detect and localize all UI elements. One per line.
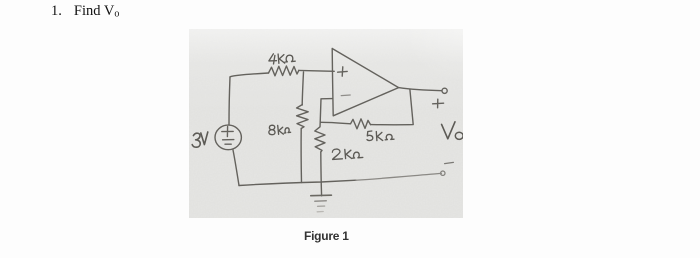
wire: feedback right segment and riser <box>371 89 414 124</box>
wire: 8k bottom to bottom rail <box>300 129 302 183</box>
label 5KOhm <box>367 131 373 141</box>
wire: 2k bottom through rail to ground <box>320 152 323 196</box>
op-amp + input marker <box>338 67 348 76</box>
node: junction drop to 8k <box>302 72 303 105</box>
label 2KOhm <box>332 149 342 159</box>
wire: feedback left segment <box>320 122 350 124</box>
label 3V <box>192 133 200 147</box>
wire: source bottom to bottom rail <box>233 150 239 186</box>
label 4KOhm <box>269 54 277 64</box>
wire: output from apex to terminal <box>399 88 442 91</box>
resistor 5K zigzag <box>351 119 371 129</box>
problem text "1. Find Vo" <box>51 3 119 20</box>
output terminal circle (+) <box>442 88 447 93</box>
op-amp - input marker <box>341 94 350 97</box>
ground symbol <box>311 195 332 212</box>
wire: top horizontal to resistor R1 <box>230 73 269 77</box>
wire: bottom rail left segment <box>239 180 356 185</box>
wire: bottom rail right segment (lighter) <box>356 173 442 180</box>
wire: inverting input stub <box>320 99 332 123</box>
bottom terminal circle (-) <box>441 171 445 175</box>
op-amp U1 triangle <box>332 49 398 116</box>
resistor 2K zigzag <box>315 122 325 152</box>
scan paper background <box>189 29 463 218</box>
output + marker <box>433 99 444 108</box>
labels (hand-written) <box>192 54 463 160</box>
scanned hand-drawn circuit figure <box>189 29 463 218</box>
label 8kOhm <box>269 125 275 135</box>
resistor 8k zigzag <box>297 105 309 129</box>
voltage source V1 circle <box>215 125 241 150</box>
wire: resistor to op-amp + input <box>299 69 334 72</box>
wire: left vertical from top corner to source <box>229 77 230 125</box>
label Vo <box>442 122 455 139</box>
caption <box>304 229 349 243</box>
output - marker <box>445 162 454 163</box>
resistor 4K zigzag <box>269 66 299 76</box>
source plus/minus marks <box>222 127 234 145</box>
